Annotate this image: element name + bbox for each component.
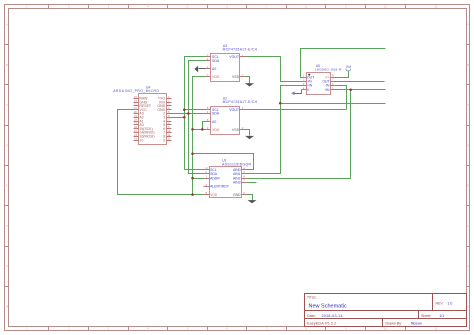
svg-text:2018-03-14: 2018-03-14 — [322, 314, 343, 318]
svg-text:10: 10 — [384, 327, 388, 331]
svg-text:16: 16 — [134, 125, 137, 129]
svg-text:VSS: VSS — [232, 128, 240, 132]
svg-text:VSS: VSS — [232, 75, 240, 79]
svg-text:18: 18 — [134, 118, 137, 122]
svg-text:SDA: SDA — [212, 112, 220, 116]
svg-text:15: 15 — [134, 129, 137, 133]
svg-text:ARDUINO_PRO_MICRO: ARDUINO_PRO_MICRO — [113, 89, 159, 93]
svg-text:TITLE:: TITLE: — [307, 295, 317, 299]
svg-text:12: 12 — [167, 137, 170, 141]
svg-text:VOUT: VOUT — [229, 108, 240, 112]
svg-text:11: 11 — [434, 327, 437, 331]
svg-text:New Schematic: New Schematic — [309, 303, 347, 309]
svg-text:Drawn By:: Drawn By: — [386, 322, 403, 326]
svg-text:11: 11 — [434, 5, 437, 9]
svg-text:20: 20 — [134, 110, 137, 114]
svg-text:13: 13 — [134, 137, 137, 141]
svg-text:A: A — [6, 23, 8, 27]
svg-text:B: B — [6, 63, 8, 67]
svg-text:A0: A0 — [212, 120, 216, 124]
svg-text:23: 23 — [134, 99, 137, 103]
svg-text:ALERT/RDY: ALERT/RDY — [210, 185, 230, 189]
svg-text:H: H — [6, 305, 8, 309]
svg-text:AIN3: AIN3 — [233, 180, 241, 184]
svg-text:A: A — [467, 23, 469, 27]
svg-text:9: 9 — [163, 138, 165, 142]
svg-text:10: 10 — [167, 129, 170, 133]
svg-text:1.0: 1.0 — [448, 301, 453, 305]
svg-text:10: 10 — [139, 138, 143, 142]
svg-text:11: 11 — [168, 133, 171, 137]
svg-text:21: 21 — [134, 106, 137, 110]
svg-text:+IN: +IN — [324, 88, 330, 92]
svg-text:VDD: VDD — [212, 75, 220, 79]
svg-text:REV:: REV: — [436, 301, 444, 305]
svg-text:VM: VM — [346, 65, 351, 69]
svg-text:Sheet:: Sheet: — [421, 314, 431, 318]
svg-text:22: 22 — [134, 102, 137, 106]
svg-text:B: B — [467, 63, 469, 67]
svg-text:MCP4725A1T-E/CH: MCP4725A1T-E/CH — [223, 100, 258, 104]
svg-text:VOUT: VOUT — [229, 55, 240, 59]
svg-text:SDA: SDA — [212, 59, 220, 63]
svg-text:V-: V- — [307, 88, 310, 92]
svg-text:17: 17 — [134, 121, 137, 125]
svg-text:10: 10 — [384, 5, 388, 9]
svg-text:1/1: 1/1 — [439, 314, 444, 318]
svg-text:EasyEDA V5.3.2: EasyEDA V5.3.2 — [307, 322, 336, 326]
svg-text:14: 14 — [134, 133, 137, 137]
svg-text:A0: A0 — [212, 67, 216, 71]
svg-text:F: F — [467, 224, 469, 228]
svg-text:H: H — [467, 305, 469, 309]
svg-text:filosow: filosow — [411, 322, 422, 326]
svg-text:MCP4725A1T-E/CH: MCP4725A1T-E/CH — [223, 47, 258, 51]
svg-text:ADS1115IDGQR: ADS1115IDGQR — [222, 162, 252, 166]
svg-text:E: E — [467, 184, 469, 188]
svg-text:24: 24 — [134, 95, 137, 99]
svg-text:F: F — [6, 224, 8, 228]
svg-text:LM358G-S08-R: LM358G-S08-R — [315, 68, 342, 72]
svg-text:ADDR: ADDR — [210, 176, 220, 180]
svg-text:VDD: VDD — [212, 128, 220, 132]
svg-text:Date:: Date: — [307, 314, 316, 318]
svg-text:GND: GND — [233, 193, 241, 197]
svg-text:VDD: VDD — [210, 193, 218, 197]
svg-text:E: E — [6, 184, 8, 188]
svg-text:19: 19 — [134, 114, 137, 118]
